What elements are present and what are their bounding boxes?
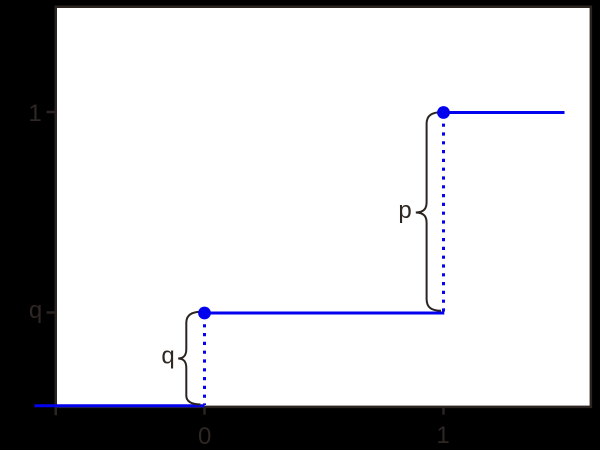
dotted drop line at x=0 [203, 324, 206, 405]
brace p [416, 112, 442, 311]
svg-text:0: 0 [198, 423, 211, 450]
point (1,1) [437, 106, 450, 119]
dotted drop line at x=1 [442, 124, 445, 312]
svg-text:1: 1 [28, 100, 41, 127]
step segment y=1 [444, 111, 565, 114]
x tick at 1 [442, 407, 445, 415]
brace q [178, 312, 200, 405]
x tick at 0 [203, 407, 206, 415]
left axis extension below x-axis [55, 407, 58, 416]
point (0,q) [198, 307, 211, 320]
y tick at 1 [47, 111, 55, 114]
svg-text:q: q [29, 297, 42, 324]
svg-text:p: p [398, 197, 411, 224]
plot area frame [56, 7, 591, 407]
svg-text:q: q [161, 343, 174, 370]
step segment y=0 [35, 404, 205, 407]
y tick at q [47, 311, 55, 314]
svg-text:1: 1 [436, 422, 449, 449]
step segment y=q [205, 312, 445, 315]
